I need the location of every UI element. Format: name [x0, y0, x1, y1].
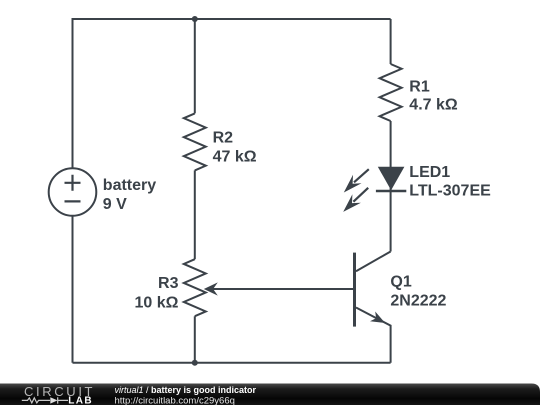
svg-text:R1: R1 — [409, 78, 430, 95]
svg-text:2N2222: 2N2222 — [390, 293, 446, 310]
svg-text:4.7 kΩ: 4.7 kΩ — [409, 97, 458, 114]
svg-text:LTL-307EE: LTL-307EE — [409, 183, 491, 200]
svg-text:10 kΩ: 10 kΩ — [135, 294, 179, 311]
svg-text:virtual1 / battery is good ind: virtual1 / battery is good indicator — [115, 385, 257, 395]
svg-text:Q1: Q1 — [390, 274, 411, 291]
svg-text:http://circuitlab.com/c29y66q: http://circuitlab.com/c29y66q — [115, 395, 235, 405]
svg-text:9 V: 9 V — [103, 196, 127, 213]
svg-text:battery: battery — [103, 177, 156, 194]
svg-text:R3: R3 — [158, 275, 179, 292]
svg-text:LED1: LED1 — [409, 164, 450, 181]
svg-text:R2: R2 — [213, 130, 234, 147]
svg-text:LAB: LAB — [68, 395, 93, 405]
svg-text:47 kΩ: 47 kΩ — [213, 148, 257, 165]
